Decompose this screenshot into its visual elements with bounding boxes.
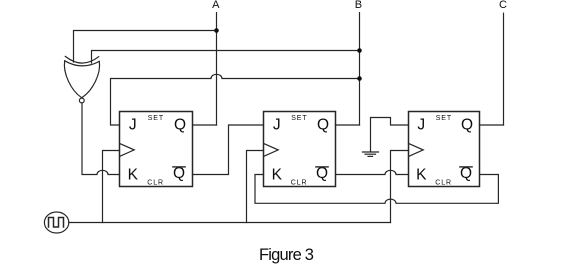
svg-text:J: J xyxy=(129,116,137,133)
wire: node A vertical xyxy=(216,13,218,125)
svg-text:K: K xyxy=(128,166,139,183)
svg-text:Q: Q xyxy=(460,165,472,182)
svg-text:B: B xyxy=(355,0,362,11)
clock source CLK1 xyxy=(44,212,68,233)
JK flip-flop U3 (FF2) xyxy=(264,112,336,187)
svg-text:CLR: CLR xyxy=(147,179,164,186)
svg-text:Figure 3: Figure 3 xyxy=(259,246,314,264)
wire: node B vertical xyxy=(359,13,361,125)
wire: clock bus to FF1 clock input xyxy=(103,151,120,223)
svg-text:SET: SET xyxy=(291,115,307,122)
svg-text:Q: Q xyxy=(317,117,329,134)
svg-text:C: C xyxy=(499,0,507,11)
svg-text:SET: SET xyxy=(436,115,452,122)
ground symbol xyxy=(363,152,379,156)
svg-text:CLR: CLR xyxy=(435,179,452,186)
svg-text:J: J xyxy=(417,116,425,133)
wire: FF3 Qbar output to FF2 K input (hop over FF3 clock feeder) xyxy=(255,175,498,204)
junction dot: B line / XNOR input wire xyxy=(357,48,362,53)
JK flip-flop U4 (FF3) xyxy=(409,112,480,187)
svg-text:SET: SET xyxy=(148,115,164,122)
svg-text:Q: Q xyxy=(174,117,186,134)
wire: node B to XNOR input 2 xyxy=(92,51,360,64)
svg-text:CLR: CLR xyxy=(291,179,308,186)
wire: FF3 Q output to node C xyxy=(480,124,504,126)
wire: XNOR output to FF1 K input (hop over FF1 clock feeder) xyxy=(82,103,120,174)
junction dot: B line / FF1 J wire xyxy=(357,76,362,81)
wire: node A to XNOR input 1 xyxy=(74,31,217,63)
XNOR gate U1 (2-input, pointing down) xyxy=(64,56,99,103)
svg-text:K: K xyxy=(272,166,283,183)
svg-text:A: A xyxy=(212,0,220,11)
svg-text:Q: Q xyxy=(173,165,185,182)
wire: FF2 Qbar output to FF3 K input (hop over FF3 clock feeder) xyxy=(336,170,409,174)
svg-text:Q: Q xyxy=(461,117,473,134)
wire: FF1 Q output to node A xyxy=(193,124,217,126)
wire: clock bus to FF3 clock input xyxy=(391,151,409,223)
wire: node B to FF1 J input (hop over A line) xyxy=(111,74,360,125)
wire: FF1 Qbar output to FF2 J input xyxy=(193,125,264,175)
junction dot: A line / XNOR input wire xyxy=(214,28,219,33)
JK flip-flop U2 (FF1) xyxy=(120,112,193,187)
svg-text:J: J xyxy=(273,116,281,133)
svg-text:K: K xyxy=(416,166,427,183)
wire: FF2 Q output to node B xyxy=(336,124,360,126)
wire: ground to FF3 J input xyxy=(371,118,409,152)
wire: clock bus to FF2 clock input xyxy=(247,151,264,223)
wire: clock bus xyxy=(69,222,391,224)
svg-text:Q: Q xyxy=(316,165,328,182)
wire: node C vertical xyxy=(503,13,505,125)
